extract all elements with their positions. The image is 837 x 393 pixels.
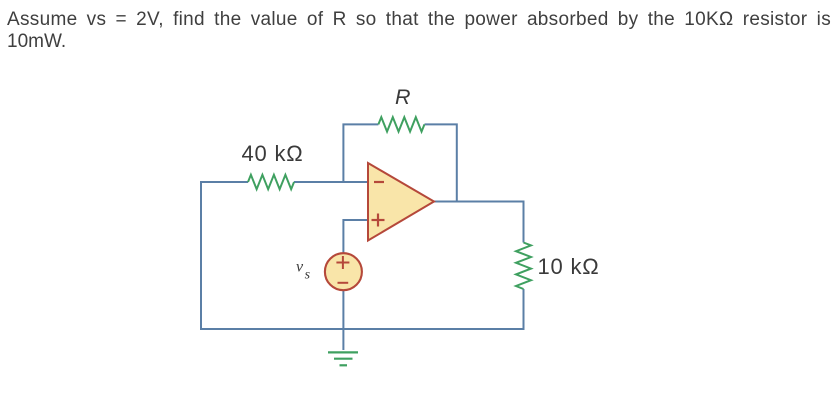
svg-text:R: R <box>395 85 411 109</box>
svg-text:40 kΩ: 40 kΩ <box>242 141 304 166</box>
svg-text:10 kΩ: 10 kΩ <box>538 254 600 279</box>
svg-text:vs: vs <box>296 259 311 283</box>
